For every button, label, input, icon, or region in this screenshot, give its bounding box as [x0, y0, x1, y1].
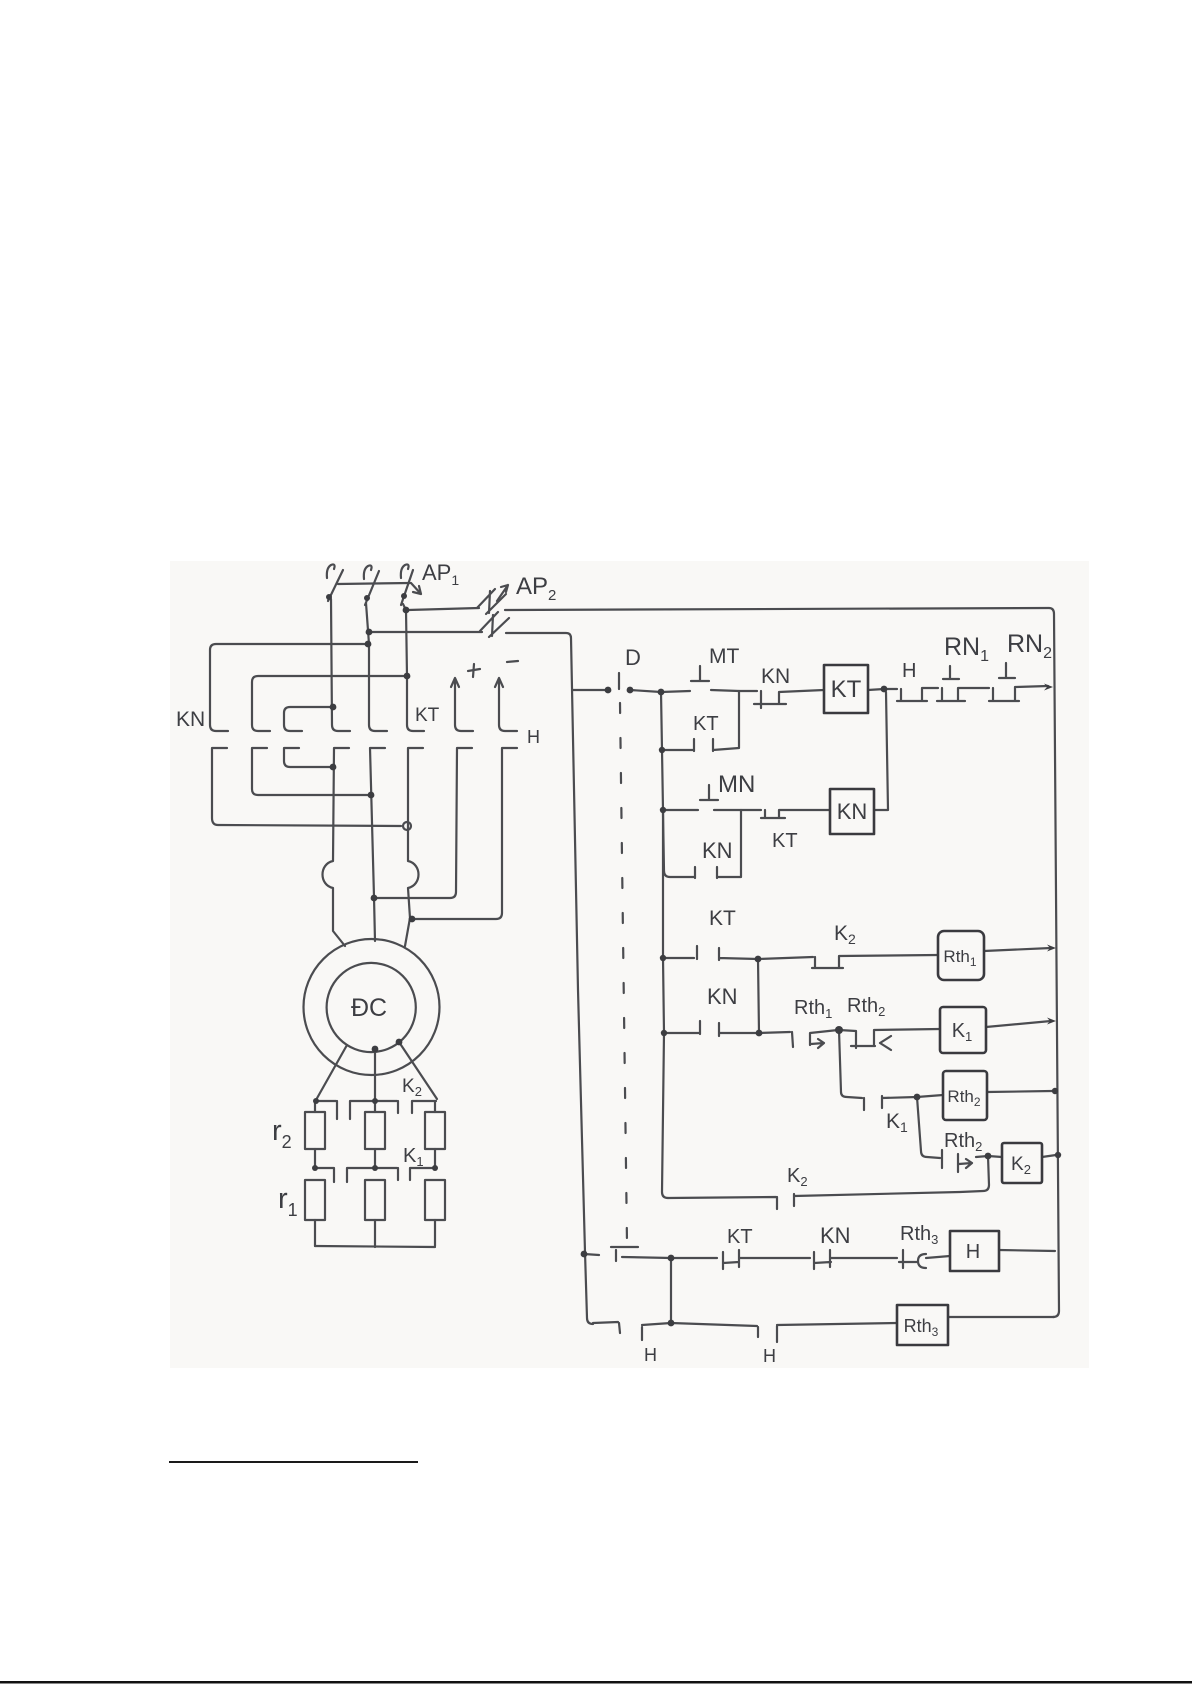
svg-text:KT: KT	[709, 907, 736, 930]
svg-text:KT: KT	[772, 830, 798, 852]
svg-text:KN: KN	[837, 799, 868, 824]
svg-text:KN: KN	[820, 1223, 851, 1248]
svg-text:KT: KT	[831, 676, 862, 703]
svg-text:KN: KN	[707, 984, 738, 1009]
svg-text:D: D	[625, 645, 641, 670]
svg-text:KN: KN	[702, 838, 733, 863]
svg-text:H: H	[644, 1345, 657, 1365]
svg-text:KT: KT	[693, 713, 719, 735]
svg-text:H: H	[763, 1346, 776, 1366]
svg-text:KN: KN	[761, 665, 790, 688]
svg-text:H: H	[902, 660, 916, 682]
svg-text:H: H	[527, 727, 540, 747]
svg-text:KT: KT	[415, 705, 440, 726]
svg-text:ĐC: ĐC	[351, 994, 387, 1022]
svg-text:KT: KT	[727, 1226, 753, 1248]
svg-text:MT: MT	[709, 645, 739, 668]
svg-text:MN: MN	[718, 771, 755, 798]
svg-text:KN: KN	[176, 708, 205, 731]
svg-text:H: H	[966, 1241, 980, 1263]
